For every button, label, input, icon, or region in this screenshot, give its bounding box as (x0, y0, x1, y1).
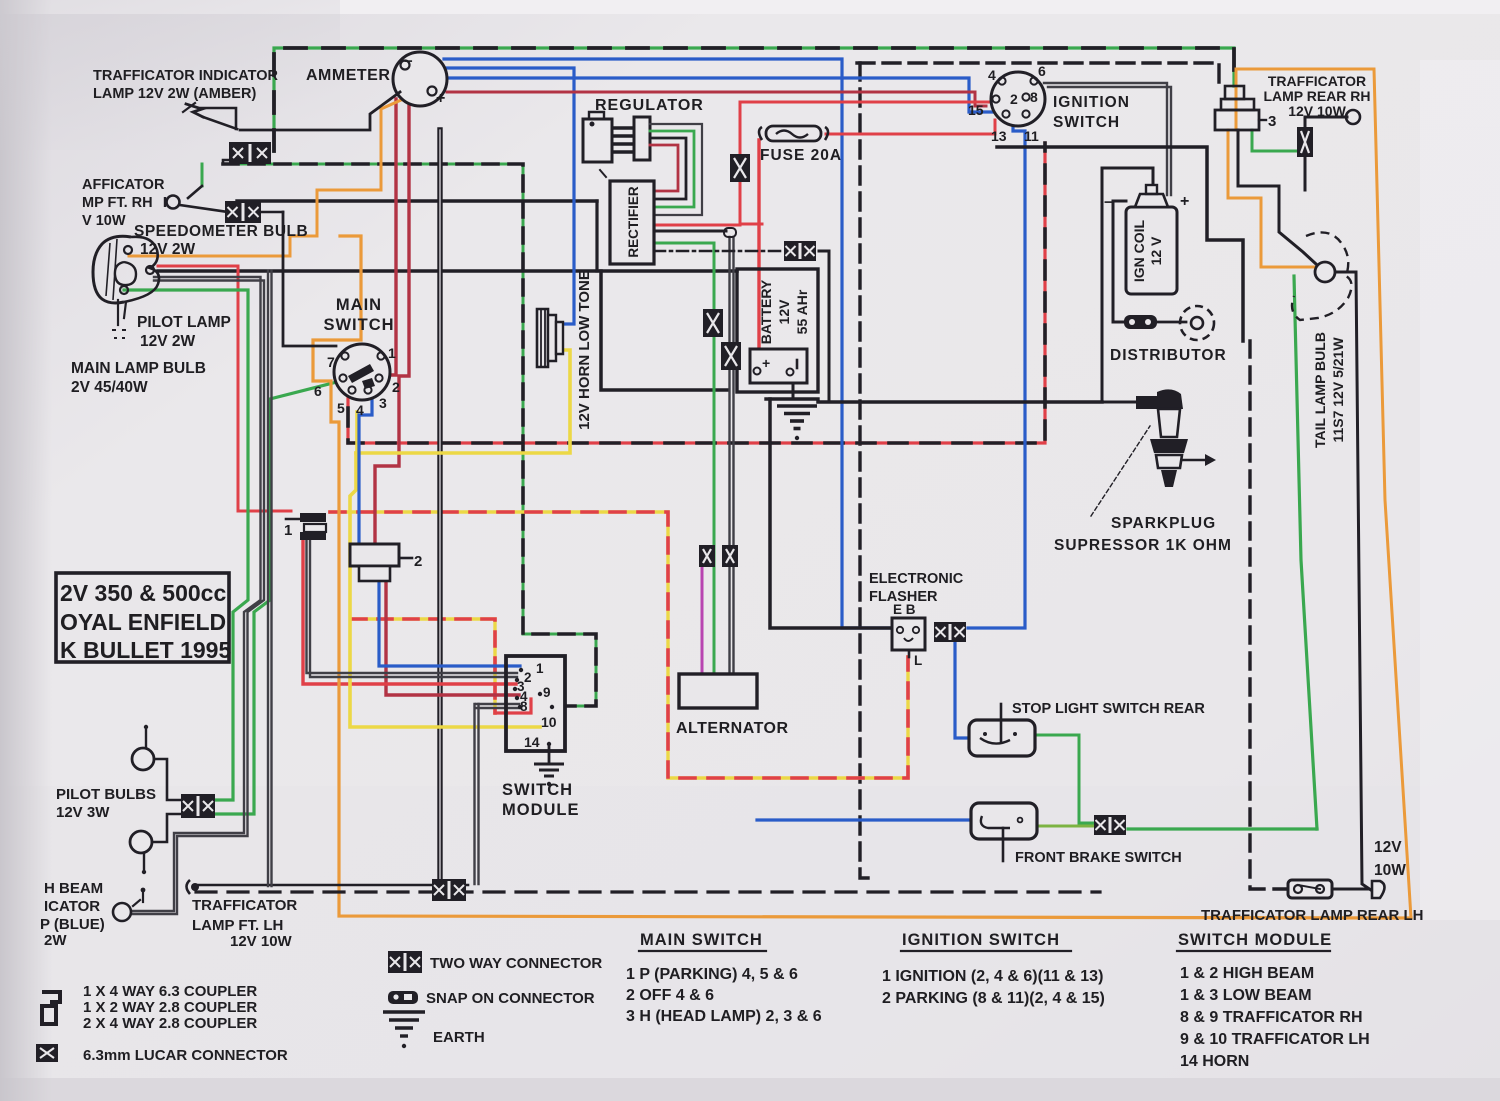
svg-text:−: − (1104, 194, 1113, 211)
connector: two-way right of flasher (934, 622, 966, 642)
svg-text:11: 11 (1024, 128, 1039, 144)
svg-text:TWO WAY CONNECTOR: TWO WAY CONNECTOR (430, 955, 602, 972)
main switch (334, 344, 390, 400)
svg-text:IGNITION SWITCH: IGNITION SWITCH (902, 931, 1060, 949)
svg-text:MODULE: MODULE (502, 801, 580, 819)
svg-text:2: 2 (392, 379, 400, 395)
svg-text:AFFICATOR: AFFICATOR (82, 177, 165, 193)
wire: red fuse feed to ignition pin2 (740, 102, 992, 224)
svg-text:FLASHER: FLASHER (869, 589, 938, 605)
svg-text:SNAP ON CONNECTOR: SNAP ON CONNECTOR (426, 990, 595, 1007)
connector: two-way on harness drop C1 (229, 142, 271, 164)
svg-text:3: 3 (379, 395, 387, 411)
svg-text:SUPRESSOR 1K OHM: SUPRESSOR 1K OHM (1054, 537, 1232, 554)
svg-text:2V 45/40W: 2V 45/40W (71, 379, 148, 396)
svg-text:10W: 10W (1374, 862, 1406, 879)
svg-text:2 PARKING (8 & 11)(2, 4 & 15): 2 PARKING (8 & 11)(2, 4 & 15) (882, 990, 1105, 1007)
svg-text:H BEAM: H BEAM (44, 880, 103, 897)
ground: battery earth (777, 404, 817, 408)
trafficator FT LH lamp (187, 880, 191, 894)
wire: green front brake switch to connector (1035, 825, 1093, 828)
svg-text:1 P (PARKING) 4, 5 & 6: 1 P (PARKING) 4, 5 & 6 (626, 966, 798, 983)
svg-text:EARTH: EARTH (433, 1029, 485, 1046)
trafficator rear LH bulb (1372, 881, 1385, 898)
wire: green rectifier to alternator (654, 243, 714, 674)
switch module box (506, 656, 565, 751)
svg-text:SWITCH: SWITCH (1053, 114, 1120, 131)
svg-text:12V: 12V (776, 299, 792, 325)
wire: magenta rectifier drop to alternator (701, 560, 704, 674)
wire: indicator lamp top lead (201, 108, 236, 129)
battery outer frame (737, 269, 818, 392)
svg-text:12V: 12V (1374, 839, 1402, 856)
wire: black battery earth to flasher feed (818, 400, 1102, 404)
legend: earth symbol (383, 1010, 425, 1013)
wire: yellow horn feed (356, 350, 570, 453)
wire: red dashes over alternator frame (330, 512, 908, 778)
svg-text:3: 3 (1268, 113, 1276, 130)
battery earth lead (792, 383, 795, 399)
wire: orange inner right branch to tail lamp (1235, 69, 1238, 130)
wire: ammeter left lead (240, 92, 400, 130)
svg-text:2 X 4 WAY 2.8 COUPLER: 2 X 4 WAY 2.8 COUPLER (83, 1015, 257, 1032)
wire: orange branch to main switch column and bottom rail (313, 236, 1411, 918)
sparkplug arrow (1183, 459, 1205, 462)
svg-text:V 10W: V 10W (82, 213, 126, 229)
horn 12V low tone (537, 309, 548, 367)
svg-text:SPARKPLUG: SPARKPLUG (1111, 515, 1216, 532)
svg-text:BATTERY: BATTERY (758, 279, 774, 344)
horn relay box 2 (350, 544, 399, 566)
svg-text:1: 1 (388, 345, 396, 361)
svg-text:5: 5 (337, 400, 345, 416)
wire: red fuse down to battery positive (757, 140, 760, 352)
svg-text:STOP LIGHT SWITCH REAR: STOP LIGHT SWITCH REAR (1012, 701, 1205, 717)
svg-text:9 & 10 TRAFFICATOR LH: 9 & 10 TRAFFICATOR LH (1180, 1031, 1370, 1048)
wire: green headlamp to pilot bulb connector (124, 290, 248, 800)
svg-text:+: + (762, 355, 770, 371)
connector: lucar vertical under RH bulb (1297, 127, 1313, 157)
svg-text:FRONT BRAKE SWITCH: FRONT BRAKE SWITCH (1015, 850, 1182, 866)
wire: black plug to tail lamp stepped path (1238, 130, 1316, 264)
tail lamp dashed housing (1292, 232, 1352, 320)
wire: black dashes over red line y443 (348, 143, 1045, 443)
wire: black connector to battery right frame (819, 251, 829, 400)
wire: green tail lamp down right side (1294, 276, 1317, 829)
svg-text:MP FT. RH: MP FT. RH (82, 195, 153, 211)
wire: orange ammeter to headlamp via connector (129, 96, 410, 256)
svg-text:LAMP FT. LH: LAMP FT. LH (192, 917, 283, 934)
wire: blue ammeter to ignition switch pin3 (448, 78, 995, 112)
svg-text:8: 8 (520, 699, 528, 714)
coupler 1 (1x4 way) (286, 518, 300, 521)
alternator (679, 674, 757, 708)
svg-text:1 X 4 WAY 6.3 COUPLER: 1 X 4 WAY 6.3 COUPLER (83, 983, 257, 1000)
headlamp assembly (93, 236, 131, 303)
svg-text:SWITCH MODULE: SWITCH MODULE (1178, 931, 1332, 949)
connector: lucar on green alternator wire (703, 309, 723, 337)
svg-text:RECTIFIER: RECTIFIER (626, 186, 641, 258)
tail lamp bulb (1315, 262, 1335, 282)
svg-text:1 & 2 HIGH BEAM: 1 & 2 HIGH BEAM (1180, 965, 1314, 982)
wire: gray twin ignition switch to coil (1044, 83, 1167, 195)
svg-text:PILOT LAMP: PILOT LAMP (137, 314, 231, 331)
wire: dashed black trafficator FT LH long line (196, 890, 1100, 893)
svg-text:1: 1 (536, 661, 544, 676)
svg-text:8: 8 (1030, 89, 1038, 105)
svg-text:MAIN LAMP BULB: MAIN LAMP BULB (71, 360, 206, 377)
svg-text:TRAFFICATOR INDICATOR: TRAFFICATOR INDICATOR (93, 68, 279, 84)
wire: blue branch down to flasher x842 (444, 59, 891, 628)
wire: green under top dashed harness (274, 48, 1234, 151)
svg-text:ICATOR: ICATOR (44, 898, 100, 915)
switch module earth (548, 746, 551, 762)
distributor rotor circle (1180, 306, 1214, 340)
connector: two-way on battery dash-dot line (784, 241, 816, 261)
wire: black switch module pin8 twin drop (476, 703, 519, 705)
regulator nested winding frames (650, 124, 702, 215)
wire: yellow left column down to module pin10 (350, 453, 540, 727)
wire: black ignition box lower frame to right column (997, 147, 1243, 341)
svg-text:14 HORN: 14 HORN (1180, 1053, 1249, 1070)
ignition coil (1126, 207, 1177, 294)
wire: yellow under red/yellow dashed branch to switch module (352, 619, 495, 713)
wire: green under dashed harness headlamp-to-switch-module (223, 164, 596, 706)
sparkplug suppressor (1136, 396, 1160, 409)
wire: crimson ammeter to main switch pin1 (385, 99, 396, 375)
svg-text:12V 10W: 12V 10W (1288, 103, 1346, 119)
ammeter (393, 52, 447, 106)
distributor condenser (snap connector) (1124, 315, 1157, 329)
svg-text:LAMP REAR RH: LAMP REAR RH (1263, 88, 1370, 104)
svg-text:13: 13 (991, 128, 1007, 144)
wire: black vertical from speedo line to battery frame x597 (595, 201, 598, 271)
title box 12V 350 & 500cc ROYAL ENFIELD UK BULLET 1995 (56, 573, 229, 662)
wire: dash-dot black rectifier to battery connector (654, 250, 782, 253)
wire: black horizontal speedometer line y201 (237, 199, 597, 202)
wire: top dashed black harness over green (274, 48, 1234, 151)
wire: dashed black ignition-frame horizontal y63 (857, 63, 1219, 87)
svg-text:10: 10 (541, 714, 557, 730)
svg-text:TRAFFICATOR LAMP REAR LH: TRAFFICATOR LAMP REAR LH (1201, 907, 1424, 924)
svg-text:12V 2W: 12V 2W (140, 333, 196, 350)
legend: lucar connector symbol (36, 1044, 58, 1062)
svg-text:TRAFFICATOR: TRAFFICATOR (192, 897, 297, 914)
svg-text:PILOT BULBS: PILOT BULBS (56, 786, 156, 803)
connector: two-way on green brake line (1094, 815, 1126, 835)
wire: red fuse to ignition pin13 y134 (826, 120, 995, 134)
wire: long twin black vertical x440 headlamp column (437, 130, 442, 886)
svg-text:12 V: 12 V (1148, 236, 1164, 265)
svg-text:1: 1 (284, 522, 292, 539)
wire: twin cap symbol (724, 228, 736, 237)
wire: dashed black ignition-frame vertical x860 (860, 63, 872, 878)
wire: black HT frame around coil (1102, 168, 1153, 184)
svg-text:2W: 2W (44, 932, 67, 949)
svg-text:1 IGNITION (2, 4 & 6)(11 & 13): 1 IGNITION (2, 4 & 6)(11 & 13) (882, 968, 1103, 985)
wire: twin gray module pin2 feed (307, 540, 518, 673)
wire: blue main switch pin3 to horn relay to module pin1 (359, 392, 372, 544)
svg-text:14: 14 (524, 734, 540, 750)
wire: dashed black right column to rear LH lamp (1250, 341, 1288, 889)
afficator front RH lamp (167, 196, 180, 209)
pilot bulbs (132, 748, 154, 770)
svg-text:+: + (436, 90, 445, 107)
connector: two-way pilot bulbs (181, 794, 215, 818)
svg-text:L: L (914, 653, 922, 668)
trafficator rear RH plug (1225, 86, 1244, 99)
svg-text:IGN COIL: IGN COIL (1131, 219, 1147, 282)
svg-text:ALTERNATOR: ALTERNATOR (676, 720, 789, 737)
svg-text:6.3mm LUCAR CONNECTOR: 6.3mm LUCAR CONNECTOR (83, 1047, 288, 1064)
wire: crimson ammeter to main switch pin2 (375, 99, 409, 544)
wire: blue into front brake switch (757, 818, 971, 821)
trafficator rear RH bulb (1346, 110, 1360, 124)
svg-text:8 & 9 TRAFFICATOR RH: 8 & 9 TRAFFICATOR RH (1180, 1009, 1363, 1026)
svg-text:6: 6 (314, 383, 322, 399)
wire: black main switch pin7 feed (283, 212, 336, 346)
svg-text:OYAL ENFIELD: OYAL ENFIELD (60, 609, 226, 635)
wire: black frame under battery area (601, 271, 727, 390)
electronic flasher (892, 618, 925, 650)
svg-text:6: 6 (1038, 63, 1046, 79)
stop light switch rear (969, 720, 1035, 756)
svg-text:11S7 12V 5/21W: 11S7 12V 5/21W (1330, 337, 1346, 443)
svg-text:2 OFF 4 & 6: 2 OFF 4 & 6 (626, 987, 714, 1004)
svg-text:7: 7 (327, 354, 335, 370)
wire: black trafficator RH bulb drop (1305, 117, 1347, 190)
wire: yellow under red/yellow dashed alternator frame (330, 512, 908, 778)
svg-text:2: 2 (1010, 91, 1018, 107)
svg-text:MAIN SWITCH: MAIN SWITCH (640, 931, 763, 949)
wire: red under long red/black dashed line y443 from main switch pin5 (348, 143, 1045, 443)
sparkplug pointer line (1091, 426, 1150, 516)
svg-text:DISTRIBUTOR: DISTRIBUTOR (1110, 347, 1227, 364)
connector: two-way on afficator line C2 (225, 201, 261, 223)
fuse 20A (766, 126, 821, 141)
svg-text:P (BLUE): P (BLUE) (40, 916, 105, 933)
wire: blue ammeter to horn (446, 68, 574, 324)
pilot lamp stem (117, 300, 119, 325)
svg-text:2: 2 (524, 670, 532, 685)
wire: black coil negative to distributor (1113, 201, 1126, 322)
connector: lucar on red fuse column (730, 154, 750, 182)
wire: long black horizontal main earth line y271 (158, 269, 737, 273)
connector: lucar on gray alternator wire (721, 342, 741, 370)
wire: red headlamp feed down left side to module pin3 (158, 266, 291, 511)
connector: lucar pair above alternator (699, 545, 715, 567)
high beam indicator lamp (113, 903, 131, 921)
wire: orange right-side frame (1236, 69, 1411, 918)
trafficator indicator lamp (top left) (186, 104, 203, 117)
svg-text:SWITCH: SWITCH (502, 781, 573, 799)
wire: green drop to afficator lamp (201, 164, 204, 186)
connector: two-way on trafficator LH line (432, 879, 466, 901)
regulator (583, 119, 612, 162)
svg-text:1 X 2 WAY 2.8 COUPLER: 1 X 2 WAY 2.8 COUPLER (83, 999, 257, 1016)
svg-text:FUSE 20A: FUSE 20A (760, 147, 842, 164)
svg-text:−: − (404, 53, 413, 70)
svg-text:9: 9 (543, 685, 551, 700)
wire: connector C1 left to dashed harness (223, 160, 229, 164)
legend: two way connector symbol (388, 951, 422, 973)
wire: crimson below horn relay to module pin4 (386, 581, 519, 695)
wire: twin gray drop to alternator x731 (728, 237, 730, 674)
main switch wiper (348, 364, 374, 383)
wire: blue ignition pin3 down to flasher connector x1025 (968, 118, 1025, 628)
wire: dashed black harness headlamp-to-switch-module (223, 164, 596, 706)
svg-text:15: 15 (968, 102, 984, 118)
ignition switch (991, 72, 1045, 126)
wire: crimson long feed ammeter to ignition y92 (447, 92, 986, 106)
wire: afficator lamp to connector C2 (180, 205, 228, 212)
svg-text:TRAFFICATOR: TRAFFICATOR (1268, 73, 1366, 89)
svg-text:3 H (HEAD LAMP) 2, 3 & 6: 3 H (HEAD LAMP) 2, 3 & 6 (626, 1008, 822, 1025)
svg-text:12V 3W: 12V 3W (56, 804, 110, 821)
wire: green stop light switch to rear lamp loop (1035, 735, 1093, 823)
svg-text:12V 2W: 12V 2W (140, 241, 196, 258)
wire: twin gray branch to trafficator FT LH (267, 271, 269, 886)
front brake switch (971, 803, 1037, 839)
svg-text:IGNITION: IGNITION (1053, 94, 1130, 111)
svg-text:ELECTRONIC: ELECTRONIC (869, 571, 964, 587)
svg-text:SWITCH: SWITCH (323, 316, 394, 334)
wire: indicator lamp diagonal lead (203, 117, 237, 129)
svg-text:REGULATOR: REGULATOR (595, 97, 704, 114)
svg-text:12V HORN LOW TONE: 12V HORN LOW TONE (576, 270, 593, 430)
rectifier (610, 181, 654, 264)
wire: twin gray headlamp to high-beam lamp column (131, 277, 261, 911)
svg-text:AMMETER: AMMETER (306, 67, 390, 84)
wire: green trafficator rear RH short link (1252, 130, 1303, 151)
wire: blue flasher connector down to stop light switch (955, 642, 971, 738)
svg-text:12V 10W: 12V 10W (230, 933, 293, 950)
rectifier pointer mark (600, 170, 606, 177)
legend: coupler symbol (42, 992, 60, 1024)
svg-text:2: 2 (414, 553, 422, 570)
svg-text:K BULLET 1995: K BULLET 1995 (60, 637, 231, 663)
legend: snap on connector symbol (388, 991, 418, 1004)
wire: yellow main switch pin4 drop (355, 412, 359, 453)
trafficator rear LH connector capsule (1288, 880, 1332, 898)
svg-text:MAIN: MAIN (336, 296, 382, 314)
svg-text:TAIL LAMP BULB: TAIL LAMP BULB (1312, 332, 1328, 448)
svg-text:4: 4 (988, 67, 996, 83)
svg-text:LAMP 12V 2W (AMBER): LAMP 12V 2W (AMBER) (93, 86, 256, 102)
svg-text:2V 350 & 500cc: 2V 350 & 500cc (60, 580, 226, 606)
svg-text:4: 4 (356, 402, 364, 418)
svg-text:55 AHr: 55 AHr (794, 289, 810, 334)
wire: red rectifier to fuse column (657, 224, 740, 227)
wire: black tail bulb down to rear LH bulb x1358 (1334, 272, 1371, 890)
battery box (750, 349, 807, 383)
svg-text:SPEEDOMETER BULB: SPEEDOMETER BULB (134, 223, 308, 240)
wire: red dashes over branch to switch module (352, 619, 495, 713)
wire: green main switch pin6 to pilot connector (216, 382, 337, 814)
wire: solid black trafficator FT LH line (196, 884, 468, 887)
svg-text:+: + (1180, 193, 1189, 210)
svg-text:1 & 3 LOW BEAM: 1 & 3 LOW BEAM (1180, 987, 1312, 1004)
wire: black rectifier bottom to twin-wire cap (654, 230, 726, 233)
wire: red into switch module pin 9 (495, 699, 531, 713)
